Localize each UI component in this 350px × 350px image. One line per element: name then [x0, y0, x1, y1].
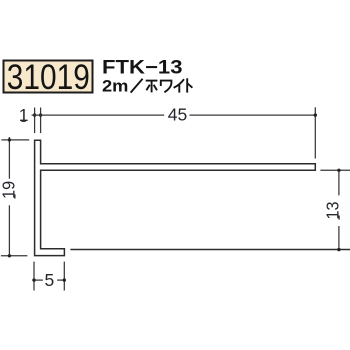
dimension: 1 (wall thickness): [35, 108, 41, 134]
katakana WA: [161, 81, 172, 93]
profile outline (cross-section): [35, 140, 316, 255]
dimension: 19 (left height): [1, 137, 29, 256]
svg-text:19: 19: [0, 181, 19, 199]
dimension: 13 (right depth): [320, 170, 350, 249]
dimension: 45 (top width): [32, 107, 316, 158]
svg-text:FTK−13: FTK−13: [102, 57, 183, 78]
katakana TO: [187, 78, 192, 92]
part number box 31019: [4, 58, 93, 97]
svg-text:45: 45: [168, 104, 188, 124]
svg-text:31019: 31019: [7, 58, 90, 97]
dimension: 5 (foot width): [34, 262, 64, 291]
svg-text:5: 5: [45, 270, 55, 290]
board reference line: [70, 249, 350, 251]
fullwidth slash: [131, 79, 143, 93]
katakana HO: [146, 81, 158, 93]
svg-text:2m: 2m: [102, 77, 128, 96]
katakana I: [174, 79, 184, 92]
